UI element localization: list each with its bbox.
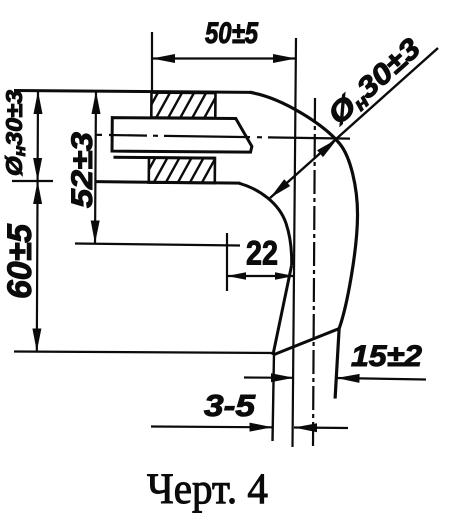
arrow down to tick — [33, 158, 42, 181]
body lower-left slanted edge — [273, 265, 292, 355]
52 bottom reference line — [75, 244, 240, 246]
svg-text:22: 22 — [246, 235, 278, 273]
leader line Øн30±3 diagonal — [270, 48, 438, 198]
52 dim vertical line — [95, 91, 96, 244]
upper bushing hatch block — [142, 87, 233, 123]
3-5 dim line left shaft — [151, 425, 273, 428]
50 dim: left extension line — [151, 32, 153, 93]
3-5 dim line right shaft — [294, 426, 348, 429]
vertical dash-dot center line — [313, 98, 315, 448]
arrow up from below tick — [33, 181, 42, 204]
body outer profile right arc — [248, 92, 359, 398]
arrow right-pointing 15 — [271, 373, 294, 382]
leader arrow upper — [317, 139, 337, 157]
left dim vertical line (Øн30±3 / 60±5 chain) — [37, 91, 38, 352]
15±2 dim line right shaft — [337, 378, 427, 380]
body top line — [14, 90, 252, 92]
arrow left 22 — [227, 272, 246, 280]
lower bore top line — [113, 156, 215, 160]
rod (handlebar bar) — [112, 118, 252, 153]
arrow right-pointing 3-5 — [250, 423, 273, 432]
lower bushing hatch block — [139, 152, 230, 188]
leader arrow lower — [270, 179, 290, 198]
svg-text:Черт. 4: Черт. 4 — [147, 466, 268, 513]
22 dim line — [227, 275, 294, 277]
tick at bushing bottom level — [12, 180, 53, 182]
body inner bottom line — [96, 182, 240, 183]
svg-text:15±2: 15±2 — [351, 340, 422, 373]
svg-text:50±5: 50±5 — [205, 17, 259, 50]
arrow down 52 — [91, 221, 100, 244]
arrow up at top — [34, 91, 43, 114]
body inner arc — [239, 183, 293, 265]
arrow right 22 — [275, 272, 294, 280]
22 dim: left tick — [226, 233, 228, 291]
arrow left-pointing 15 — [337, 374, 360, 383]
svg-text:52±3: 52±3 — [66, 132, 99, 208]
dim line 50±5 — [152, 57, 296, 59]
50 dim: right extension / long vertical line — [293, 38, 297, 447]
svg-text:Øн30±3: Øн30±3 — [322, 32, 428, 132]
arrow down at bottom line — [32, 329, 41, 352]
arrow left-pointing 3-5 — [294, 423, 317, 432]
svg-text:60±5: 60±5 — [1, 223, 39, 299]
60 bottom reference line — [14, 352, 275, 354]
horizontal dash-dot center line — [95, 135, 350, 139]
body bottom slanted edge — [273, 328, 339, 356]
arrow left 50 — [152, 54, 175, 63]
svg-text:3-5: 3-5 — [204, 388, 256, 423]
left edge extension at bottom — [273, 353, 275, 441]
arrow up 52 — [92, 91, 101, 114]
15±2 dim line left shaft — [244, 376, 294, 378]
arrow right 50 — [273, 54, 296, 63]
svg-text:Øн30±3: Øн30±3 — [1, 90, 29, 176]
